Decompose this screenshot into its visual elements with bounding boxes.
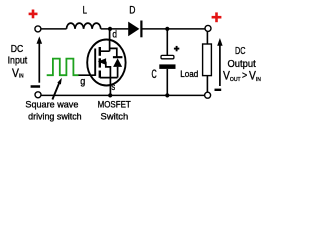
output voltage arrow xyxy=(217,38,222,86)
capacitor polarity + xyxy=(174,46,179,51)
MOSFET Q1 source connection xyxy=(100,78,118,96)
terminal input negative xyxy=(35,92,41,98)
MOSFET Q1 gate lead wire xyxy=(78,74,95,76)
MOSFET Q1 channel dashes xyxy=(99,47,101,78)
terminal output negative xyxy=(205,92,211,98)
diode D xyxy=(128,21,141,38)
capacitor C (polarized) xyxy=(159,55,175,69)
node source junction on bottom rail xyxy=(108,93,112,97)
terminal output positive xyxy=(205,25,211,31)
MOSFET Q1 substrate arrow xyxy=(98,58,111,77)
wire capacitor top lead xyxy=(166,29,168,55)
wire top rail: terminal to inductor xyxy=(41,28,66,30)
svg-text:L: L xyxy=(83,5,87,17)
terminal input positive xyxy=(35,26,41,32)
svg-text:g: g xyxy=(80,75,85,87)
input voltage arrow xyxy=(37,36,43,82)
square wave drive signal xyxy=(47,59,79,76)
svg-text:Square wave: Square wave xyxy=(25,100,78,111)
inductor L xyxy=(67,23,101,29)
svg-text:Input: Input xyxy=(8,56,28,67)
wire load top stub xyxy=(206,31,208,43)
wire bottom rail xyxy=(41,94,204,96)
MOSFET Q1 body ellipse xyxy=(87,40,125,86)
svg-text:s: s xyxy=(111,81,115,93)
wire diode cathode to output terminal xyxy=(143,28,206,30)
svg-text:D: D xyxy=(129,5,135,17)
wire capacitor bottom lead xyxy=(166,69,168,96)
MOSFET Q1 body diode xyxy=(110,48,123,77)
svg-text:Load: Load xyxy=(180,69,198,80)
svg-text:MOSFET: MOSFET xyxy=(98,100,131,111)
node capacitor bottom junction xyxy=(165,93,169,97)
node capacitor top junction xyxy=(165,27,169,31)
polarity + output (red) xyxy=(212,12,222,22)
svg-text:Output: Output xyxy=(228,59,256,70)
MOSFET Q1 drain connection xyxy=(100,29,110,51)
svg-text:DC: DC xyxy=(235,46,246,57)
svg-text:d: d xyxy=(112,29,117,41)
wire load bottom stub xyxy=(206,76,208,93)
wire inductor to diode anode xyxy=(101,28,129,30)
svg-text:driving switch: driving switch xyxy=(28,111,82,122)
MOSFET Q1 gate bar xyxy=(94,49,96,76)
svg-text:C: C xyxy=(152,69,157,81)
svg-text:VOUT>VIN: VOUT>VIN xyxy=(223,70,261,83)
polarity - output xyxy=(215,89,222,91)
annotation arrow to square wave xyxy=(52,78,61,100)
polarity + input (red) xyxy=(29,10,38,19)
svg-text:DC: DC xyxy=(11,44,24,55)
polarity - input xyxy=(31,85,40,88)
svg-text:VIN: VIN xyxy=(12,68,24,81)
node d junction (inductor/diode/drain) xyxy=(108,27,112,31)
svg-text:Switch: Switch xyxy=(101,111,129,122)
load resistor R xyxy=(203,44,212,76)
